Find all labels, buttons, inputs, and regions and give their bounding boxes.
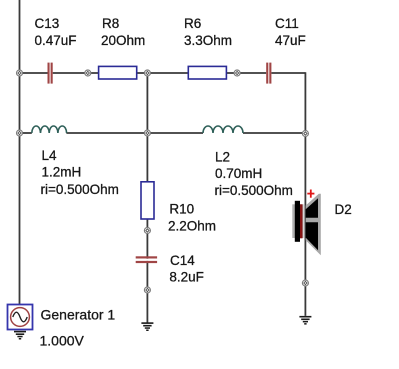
svg-text:R10: R10 — [169, 202, 194, 217]
svg-text:R8: R8 — [102, 16, 119, 31]
svg-text:R6: R6 — [184, 16, 201, 31]
svg-text:ri=0.500Ohm: ri=0.500Ohm — [215, 183, 293, 198]
svg-text:Generator 1: Generator 1 — [41, 306, 116, 322]
svg-text:20Ohm: 20Ohm — [101, 33, 145, 48]
svg-text:0.70mH: 0.70mH — [215, 166, 262, 181]
svg-text:C13: C13 — [35, 16, 60, 31]
svg-text:2.2Ohm: 2.2Ohm — [168, 219, 216, 234]
svg-text:3.3Ohm: 3.3Ohm — [184, 33, 232, 48]
svg-text:8.2uF: 8.2uF — [169, 269, 204, 284]
svg-text:1.000V: 1.000V — [40, 333, 85, 349]
svg-text:L4: L4 — [42, 148, 58, 163]
svg-text:C11: C11 — [275, 16, 299, 31]
svg-text:0.47uF: 0.47uF — [35, 33, 77, 48]
svg-text:1.2mH: 1.2mH — [42, 164, 82, 179]
svg-text:ri=0.500Ohm: ri=0.500Ohm — [41, 182, 119, 197]
svg-text:D2: D2 — [335, 202, 352, 217]
svg-text:47uF: 47uF — [275, 33, 306, 48]
svg-text:L2: L2 — [215, 149, 230, 164]
svg-text:C14: C14 — [170, 253, 195, 268]
